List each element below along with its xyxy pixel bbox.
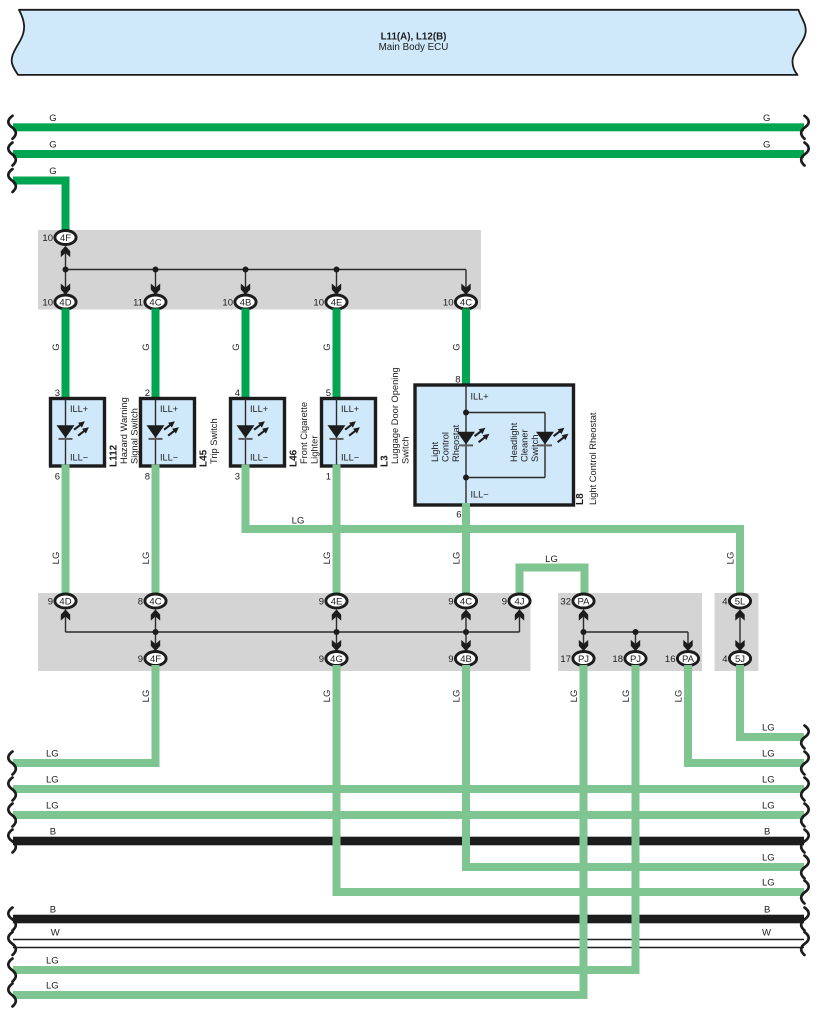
svg-text:ILL+: ILL+	[250, 404, 268, 414]
wire LG 4B to right bus	[462, 665, 470, 871]
tear mark left row 2	[8, 752, 16, 775]
junction dot upper 4B	[243, 267, 249, 273]
arrow into connector 5L	[735, 609, 744, 620]
tear mark left bus 1	[8, 116, 16, 139]
tear mark left bus 2	[8, 143, 16, 166]
connector 4D pin 10	[55, 295, 76, 309]
svg-text:4F: 4F	[150, 654, 161, 665]
svg-text:L112: L112	[109, 444, 120, 467]
lower junction block band 2	[558, 593, 702, 671]
wire W bus row 9	[13, 939, 804, 948]
svg-text:4D: 4D	[59, 596, 71, 607]
arrow into connector 4G	[332, 640, 341, 651]
svg-text:LG: LG	[762, 723, 775, 734]
svg-text:4B: 4B	[240, 297, 252, 308]
junction dot L8 bottom	[463, 475, 469, 481]
svg-text:ILL+: ILL+	[160, 404, 178, 414]
svg-text:B: B	[764, 827, 770, 838]
arrow into connector 4D lower	[61, 609, 70, 620]
svg-text:LG: LG	[621, 690, 632, 703]
wire G to L46	[242, 309, 250, 401]
junction dot PA-PJ	[581, 629, 587, 635]
internal wire L45	[155, 399, 157, 467]
tear mark left row 4	[8, 804, 16, 827]
svg-text:L46: L46	[289, 449, 300, 467]
svg-text:10: 10	[42, 233, 53, 244]
svg-text:9: 9	[448, 596, 453, 607]
svg-text:G: G	[322, 343, 333, 350]
svg-text:Lighter: Lighter	[310, 436, 320, 464]
LED bulb L45	[147, 425, 165, 438]
svg-text:B: B	[50, 827, 56, 838]
svg-text:G: G	[51, 343, 62, 350]
junction dot lower 4E-4G	[334, 629, 340, 635]
connector 4D pin 9	[55, 594, 76, 608]
arrow into connector PA32	[579, 609, 588, 620]
svg-text:4: 4	[722, 596, 727, 607]
LED light control rheostat	[457, 432, 475, 445]
wire LG PJ18 to left bus	[632, 665, 640, 974]
connector 4F pin 10	[55, 231, 76, 245]
lower junction block band 3	[715, 593, 759, 671]
svg-text:Signal Switch: Signal Switch	[130, 408, 140, 464]
connector 5L pin 4	[729, 594, 750, 608]
wire LG L8 to 4C	[462, 503, 470, 595]
LED bulb L112	[57, 425, 75, 438]
svg-text:PJ: PJ	[630, 654, 641, 665]
svg-text:ILL+: ILL+	[70, 404, 88, 414]
svg-text:9: 9	[48, 596, 53, 607]
svg-text:ILL−: ILL−	[160, 453, 178, 463]
svg-text:Control: Control	[441, 432, 451, 462]
wire LG bus row 4	[13, 811, 804, 819]
junction bus line lower band 2	[583, 615, 585, 646]
svg-text:10: 10	[42, 297, 53, 308]
svg-text:Trip Switch: Trip Switch	[209, 418, 219, 464]
junction dot upper 4E	[334, 267, 340, 273]
svg-text:8: 8	[138, 596, 143, 607]
arrow into connector 5J	[735, 640, 744, 651]
svg-text:LG: LG	[762, 878, 775, 889]
svg-text:LG: LG	[46, 775, 59, 786]
junction dot L8 top	[463, 410, 469, 416]
svg-text:LG: LG	[46, 956, 59, 967]
svg-text:LG: LG	[452, 690, 463, 703]
svg-text:LG: LG	[322, 552, 333, 565]
svg-text:ILL+: ILL+	[341, 404, 359, 414]
svg-text:9: 9	[448, 654, 453, 665]
svg-text:4C: 4C	[460, 596, 472, 607]
svg-text:W: W	[762, 928, 771, 939]
svg-text:1: 1	[326, 472, 331, 483]
tear mark right row 5	[801, 830, 809, 853]
component box L3	[322, 399, 376, 467]
svg-text:Light: Light	[430, 441, 440, 462]
svg-text:G: G	[49, 113, 56, 124]
tear mark left row 3	[8, 778, 16, 801]
svg-text:5L: 5L	[735, 596, 746, 607]
svg-text:LG: LG	[51, 552, 62, 565]
arrow into connector 4F lower	[151, 640, 160, 651]
wire LG 5J to right bus	[736, 665, 744, 741]
arrow into connector 4C pin 10	[461, 284, 470, 295]
wire LG bus row 3	[13, 785, 804, 793]
svg-text:LG: LG	[569, 690, 580, 703]
wire B bus row 5	[13, 837, 804, 846]
lower junction block band 1	[38, 593, 531, 671]
arrow into connector 4B	[241, 284, 250, 295]
svg-text:ILL−: ILL−	[471, 490, 489, 500]
svg-text:32: 32	[560, 596, 571, 607]
svg-text:G: G	[763, 113, 770, 124]
svg-text:G: G	[141, 343, 152, 350]
svg-text:G: G	[763, 140, 770, 151]
svg-text:Luggage Door Opening: Luggage Door Opening	[390, 367, 400, 464]
tear mark right bus 1	[801, 116, 809, 139]
tear mark right row 7	[801, 881, 809, 904]
svg-text:LG: LG	[674, 690, 685, 703]
svg-text:Headlight: Headlight	[509, 422, 519, 462]
svg-text:PA: PA	[682, 654, 695, 665]
LED bulb L46	[237, 425, 255, 438]
wire G to L3	[333, 309, 341, 401]
connector 4B pin 9	[455, 652, 476, 666]
connector 4C pin 8	[145, 594, 166, 608]
svg-text:Front Cigarette: Front Cigarette	[299, 402, 309, 464]
svg-text:LG: LG	[141, 690, 152, 703]
svg-text:L45: L45	[199, 449, 210, 467]
svg-text:9: 9	[319, 654, 324, 665]
svg-text:LG: LG	[141, 552, 152, 565]
svg-text:4B: 4B	[460, 654, 472, 665]
svg-text:Switch: Switch	[401, 437, 411, 464]
LED bulb L3	[328, 425, 346, 438]
svg-text:LG: LG	[322, 690, 333, 703]
wire LG L45 to 4C	[152, 465, 160, 595]
connector 4E pin 9	[326, 594, 347, 608]
svg-text:11: 11	[133, 297, 143, 308]
arrow into connector 4J	[515, 609, 524, 620]
component box L46	[231, 399, 285, 467]
svg-text:ILL+: ILL+	[471, 392, 489, 402]
svg-text:4G: 4G	[330, 654, 343, 665]
wire LG PJ17 to left bus	[580, 665, 588, 999]
connector PJ pin 18	[625, 652, 646, 666]
svg-text:10: 10	[313, 297, 324, 308]
arrow into connector PJ17	[579, 640, 588, 651]
junction dot lower 4C-4B	[463, 629, 469, 635]
arrow into connector 4C pin 11	[151, 284, 160, 295]
wire B bus row 8	[13, 915, 804, 924]
tear mark right row 1	[801, 726, 809, 749]
connector 4J pin 9	[509, 594, 530, 608]
svg-text:6: 6	[55, 472, 60, 483]
svg-text:4E: 4E	[331, 596, 343, 607]
internal wire L112	[65, 399, 67, 467]
svg-text:G: G	[231, 343, 242, 350]
arrow into connector PA16	[683, 640, 692, 651]
tear mark left row 11	[8, 984, 16, 1007]
wire LG L46 to 5L	[242, 465, 250, 534]
LED headlight cleaner switch	[536, 432, 554, 445]
junction dot upper 4C	[153, 267, 159, 273]
svg-text:4E: 4E	[331, 297, 343, 308]
tear mark right row 9	[801, 932, 809, 955]
internal wire L8 main	[465, 385, 467, 505]
svg-text:17: 17	[560, 654, 571, 665]
junction dot lower 4C-4F	[153, 629, 159, 635]
svg-text:Main Body ECU: Main Body ECU	[379, 42, 449, 53]
svg-text:LG: LG	[545, 554, 558, 565]
svg-text:LG: LG	[46, 981, 59, 992]
svg-text:4: 4	[722, 654, 727, 665]
svg-text:9: 9	[502, 596, 507, 607]
tear mark right row 3	[801, 778, 809, 801]
svg-text:LG: LG	[762, 775, 775, 786]
arrow into connector 4C8	[151, 609, 160, 620]
svg-text:4J: 4J	[514, 596, 524, 607]
svg-text:LG: LG	[726, 552, 737, 565]
svg-text:9: 9	[138, 654, 143, 665]
internal wire L46	[245, 399, 247, 467]
component box L45	[141, 399, 195, 467]
wire LG 4J to PA	[516, 564, 524, 595]
junction dot PJ18	[633, 629, 639, 635]
svg-text:4D: 4D	[59, 297, 71, 308]
internal branch wire L8	[466, 412, 545, 414]
svg-text:Hazard Warning: Hazard Warning	[119, 397, 129, 464]
tear mark right row 8	[801, 908, 809, 931]
tear mark left row 10	[8, 959, 16, 982]
wire LG 4G to right bus	[333, 665, 341, 896]
svg-text:G: G	[49, 166, 56, 177]
tear mark left row 9	[8, 932, 16, 955]
arrow into connector 4E lower	[332, 609, 341, 620]
wire G bus row 1	[13, 123, 804, 131]
svg-text:4C: 4C	[460, 297, 472, 308]
svg-text:LG: LG	[452, 552, 463, 565]
connector 4B pin 10	[235, 295, 256, 309]
arrow into connector 4E	[332, 284, 341, 295]
svg-text:G: G	[452, 343, 463, 350]
wire G to L112	[62, 309, 70, 401]
component box L8	[415, 385, 574, 505]
connector 5J pin 4	[729, 652, 750, 666]
tear mark left row 5	[8, 830, 16, 853]
arrow into connector 4C9	[461, 609, 470, 620]
svg-text:8: 8	[145, 472, 150, 483]
arrow into connector 4D	[61, 284, 70, 295]
component box L112	[51, 399, 105, 467]
upper junction block band	[38, 230, 481, 310]
svg-text:B: B	[764, 905, 770, 916]
junction bus line upper band	[66, 269, 467, 271]
svg-text:Rheostat: Rheostat	[451, 424, 461, 462]
svg-text:ILL−: ILL−	[70, 453, 88, 463]
svg-text:4C: 4C	[149, 596, 161, 607]
svg-text:B: B	[50, 905, 56, 916]
svg-text:LG: LG	[292, 516, 305, 527]
svg-text:3: 3	[235, 472, 240, 483]
wire LG L3 to 4E	[333, 465, 341, 595]
tear mark right bus 2	[801, 143, 809, 166]
junction dot upper 4D	[63, 267, 69, 273]
svg-text:5J: 5J	[735, 654, 745, 665]
connector 4C pin 10	[455, 295, 476, 309]
wire G to L45	[152, 309, 160, 401]
svg-text:Light Control Rheostat: Light Control Rheostat	[588, 412, 598, 505]
tear mark right row 2	[801, 752, 809, 775]
svg-text:L11(A), L12(B): L11(A), L12(B)	[381, 31, 447, 42]
tear mark left G stub	[8, 169, 16, 192]
wire G to L8	[462, 309, 470, 388]
svg-text:4C: 4C	[149, 297, 161, 308]
svg-text:Cleaner: Cleaner	[520, 429, 530, 462]
svg-text:Switch: Switch	[530, 435, 540, 462]
connector 4C pin 11	[145, 295, 166, 309]
connector 4G pin 9	[326, 652, 347, 666]
connector PJ pin 17	[573, 652, 594, 666]
svg-text:6: 6	[456, 510, 461, 521]
ECU module banner L11(A), L12(B) Main Body ECU	[12, 10, 806, 75]
svg-text:16: 16	[665, 654, 676, 665]
connector PA pin 32	[573, 594, 594, 608]
arrow into connector 4B lower	[461, 640, 470, 651]
svg-text:10: 10	[222, 297, 233, 308]
svg-text:LG: LG	[762, 853, 775, 864]
junction bus line lower band 1	[66, 631, 520, 633]
svg-text:L3: L3	[380, 455, 391, 467]
connector 4E pin 10	[326, 295, 347, 309]
svg-text:ILL−: ILL−	[250, 453, 268, 463]
wire G bus row 2	[13, 150, 804, 158]
tear mark right row 6	[801, 856, 809, 879]
svg-text:PJ: PJ	[578, 654, 589, 665]
svg-text:LG: LG	[46, 749, 59, 760]
svg-text:G: G	[49, 140, 56, 151]
wire LG 4F to left bus	[152, 665, 160, 767]
internal wire L3	[336, 399, 338, 467]
svg-text:18: 18	[612, 654, 623, 665]
svg-text:LG: LG	[762, 801, 775, 812]
svg-text:4F: 4F	[60, 233, 71, 244]
svg-text:9: 9	[319, 596, 324, 607]
svg-text:PA: PA	[578, 596, 591, 607]
connector 4C pin 9	[455, 594, 476, 608]
wire LG PA16 to right bus	[684, 665, 692, 767]
svg-text:L8: L8	[575, 493, 586, 505]
svg-text:10: 10	[443, 297, 454, 308]
wire LG L112 to 4D	[62, 465, 70, 595]
svg-text:ILL−: ILL−	[341, 453, 359, 463]
tear mark left row 8	[8, 908, 16, 931]
svg-text:LG: LG	[46, 801, 59, 812]
svg-text:LG: LG	[762, 749, 775, 760]
wire G stub to connector 4F	[13, 177, 70, 185]
connector PA pin 16	[677, 652, 698, 666]
svg-text:W: W	[51, 928, 60, 939]
connector 4F pin 9	[145, 652, 166, 666]
junction bus line lower band 3	[739, 615, 741, 646]
arrow into connector 4F	[61, 246, 70, 257]
arrow into connector PJ18	[631, 640, 640, 651]
tear mark right row 4	[801, 804, 809, 827]
